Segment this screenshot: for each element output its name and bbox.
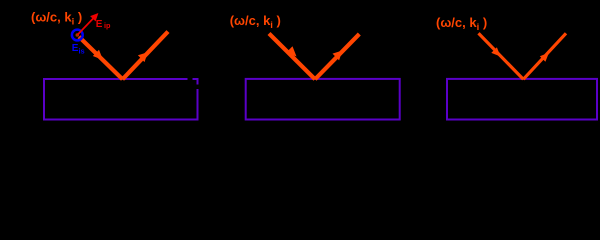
svg-text:(ω/c, ki ): (ω/c, ki )	[31, 10, 82, 28]
reflected ray 2	[315, 34, 359, 79]
incident ray 1	[79, 37, 123, 80]
E_ip polarization arrow	[77, 13, 98, 35]
svg-text:(ω/c, ki ): (ω/c, ki )	[436, 15, 487, 33]
svg-text:(ω/c, ki ): (ω/c, ki )	[230, 13, 281, 31]
reflected ray 1	[123, 32, 169, 80]
E_is center dot	[76, 33, 80, 37]
svg-text:Eip: Eip	[96, 19, 111, 30]
E_is out-of-page circle symbol	[72, 30, 83, 41]
svg-text:Eis: Eis	[72, 43, 85, 55]
slab rectangle 3 (right)	[447, 79, 597, 120]
incident ray 3	[479, 33, 524, 79]
reflected ray 3	[523, 33, 566, 79]
incident ray 2	[269, 34, 315, 80]
slab rectangle 2 (middle)	[246, 79, 400, 120]
slab rectangle 1 (left medium)	[44, 78, 200, 120]
